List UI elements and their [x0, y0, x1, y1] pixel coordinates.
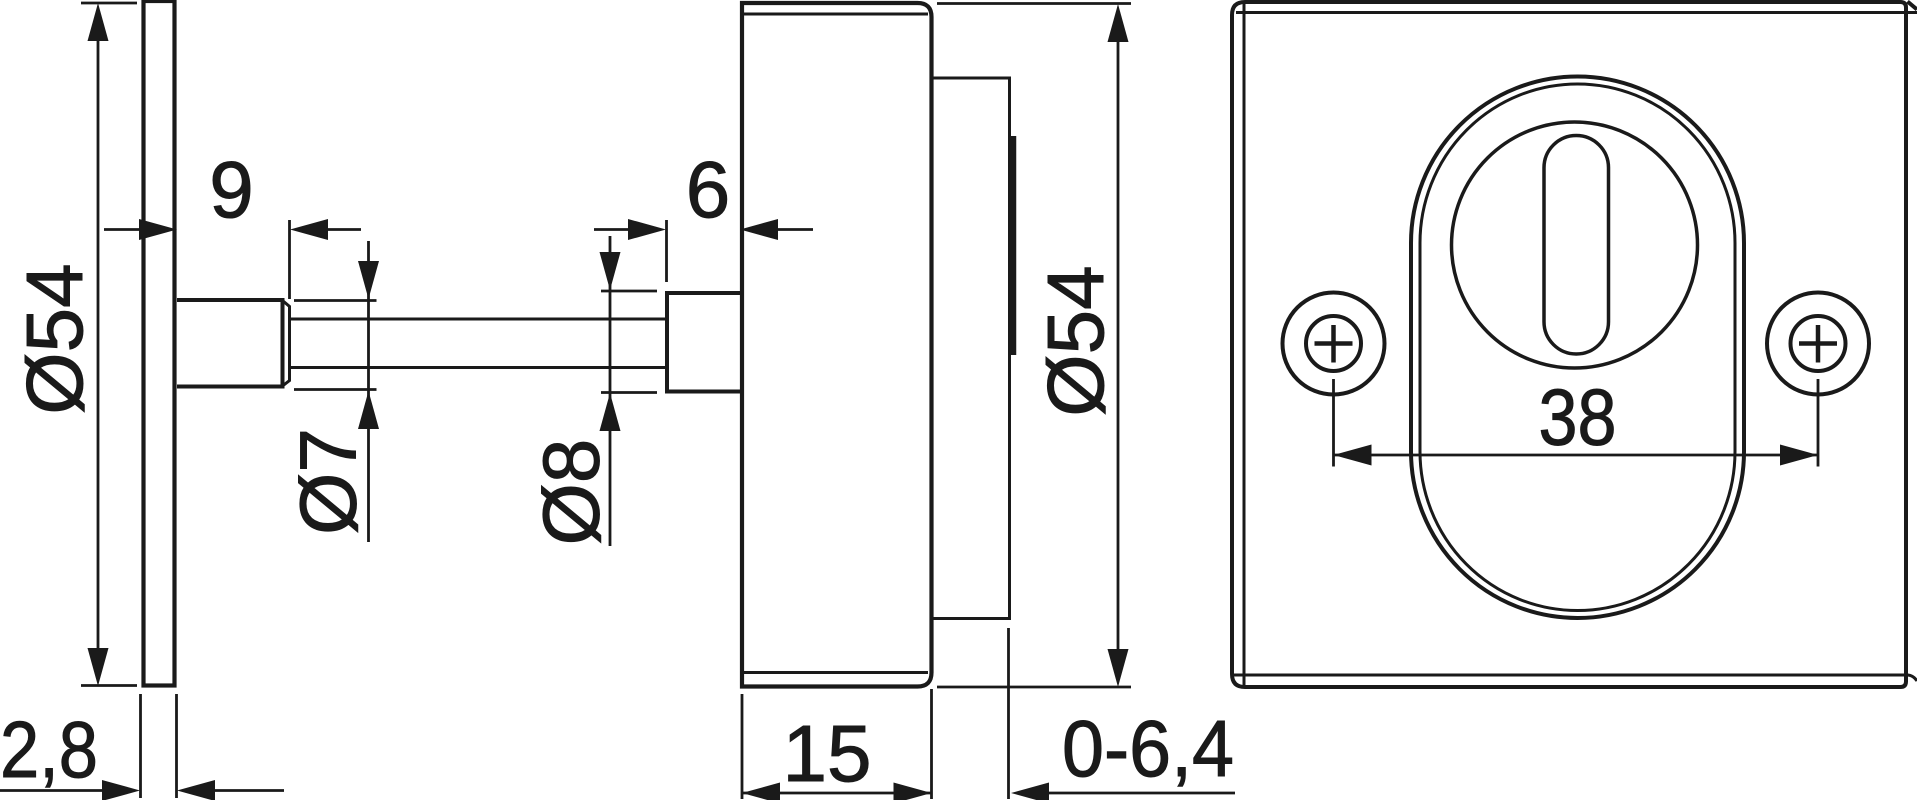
- cap block Ø8 outline: [667, 293, 740, 392]
- dimension 6: left arrow head: [628, 219, 666, 240]
- dimension Ø54 left: dim line: [97, 38, 100, 650]
- svg-text:9: 9: [209, 145, 254, 234]
- svg-text:Ø54: Ø54: [1031, 265, 1120, 416]
- svg-text:Ø8: Ø8: [527, 439, 616, 546]
- svg-text:Ø54: Ø54: [10, 263, 99, 414]
- left screw cross horizontal: [1315, 341, 1353, 346]
- front square bevel line top: [1236, 11, 1917, 14]
- dimension Ø7: lower arrow head: [358, 391, 379, 429]
- cylinder face circle: [1452, 122, 1698, 368]
- dimension 38: left arrow head: [1334, 445, 1372, 466]
- dimension Ø54 left: bottom extension tick: [81, 684, 137, 687]
- dimension 6: right arrow tail: [776, 228, 813, 231]
- dimension Ø54 middle: bottom arrow: [1108, 649, 1129, 687]
- dimension Ø7: upper arrow line: [367, 241, 370, 542]
- dimension 15: right arrow head: [894, 783, 932, 800]
- dimension 15: left arrow head: [742, 783, 780, 800]
- dimension Ø8: lower arrow head: [600, 393, 621, 431]
- cylinder cover oval outer: [1411, 77, 1744, 619]
- dimension 38: right arrow head: [1780, 445, 1818, 466]
- keyway slot: [1544, 136, 1609, 355]
- dimension 9: extension line: [288, 220, 291, 299]
- rosette top bevel line: [744, 13, 928, 16]
- dimension 9: right arrow head: [290, 219, 328, 240]
- right screw inner circle: [1791, 316, 1846, 371]
- dimension Ø54 middle: top arrow: [1108, 4, 1129, 42]
- dimension Ø54 middle: top extension line: [937, 2, 1131, 5]
- dimension Ø54 left: bottom arrow: [88, 648, 109, 686]
- dimension Ø7: top extension tick: [294, 299, 377, 302]
- dimension 6: extension line: [665, 220, 668, 282]
- dimension 38: dim line: [1334, 454, 1819, 457]
- svg-text:Ø7: Ø7: [284, 428, 373, 535]
- spindle shaft bottom line: [290, 366, 667, 369]
- dimension 2,8: right arrow tail: [213, 789, 284, 792]
- dimension 0-6,4: arrow head: [1011, 783, 1049, 800]
- svg-text:6: 6: [686, 145, 731, 234]
- cropped corner line at top right: [1908, 2, 1917, 10]
- svg-text:38: 38: [1539, 373, 1617, 462]
- cylinder protrusion bar: [1011, 136, 1017, 355]
- dimension Ø7: upper arrow head: [358, 261, 379, 299]
- dimension Ø54 left: top arrow: [88, 3, 109, 41]
- dimension 2,8: right extension line: [175, 694, 178, 798]
- left screw inner circle: [1306, 316, 1361, 371]
- dimension 2,8: right arrow head: [177, 780, 215, 800]
- dimension 2,8: left arrow head: [102, 780, 140, 800]
- dimension 15: left extension line: [741, 694, 744, 799]
- dimension Ø8: upper arrow head: [600, 252, 621, 290]
- adapter plate rectangle: [932, 78, 1010, 619]
- dimension 2,8: left extension line: [139, 694, 142, 798]
- svg-text:15: 15: [783, 709, 872, 798]
- right screw outer circle: [1767, 293, 1869, 395]
- dimension 6: left arrow tail: [594, 228, 630, 231]
- dimension 0-6,4: dim line: [1047, 792, 1235, 795]
- dimension Ø8: upper arrow line: [609, 236, 612, 546]
- spindle shaft top line: [290, 318, 667, 321]
- cylinder cover oval inner: [1420, 84, 1735, 611]
- dimension 2,8: left arrow tail: [0, 789, 104, 792]
- plate side profile (2.8mm): [144, 1, 175, 686]
- dimension Ø8: bottom extension tick: [601, 391, 657, 394]
- dimension 15: dim line: [742, 792, 932, 795]
- svg-text:2,8: 2,8: [0, 705, 98, 794]
- dimension 15: right extension line: [930, 689, 933, 799]
- dimension 9: left arrow tail: [104, 228, 142, 231]
- dimension Ø54 left: top extension tick: [81, 2, 137, 5]
- svg-text:0-6,4: 0-6,4: [1062, 704, 1234, 793]
- dimension Ø54 middle: dim line: [1117, 40, 1120, 650]
- front square bevel line bottom: [1234, 675, 1917, 681]
- rosette front square: [1232, 2, 1906, 687]
- dimension 9: right arrow tail: [326, 228, 361, 231]
- dimension 0-6,4: extension line: [1007, 628, 1010, 799]
- left screw cross vertical: [1331, 325, 1336, 363]
- boss chamfer edge: [283, 301, 290, 387]
- rosette side view outline: [742, 3, 932, 687]
- dimension Ø8: top extension tick: [601, 290, 657, 293]
- dimension 9: left arrow head: [139, 219, 177, 240]
- dimension 38: left extension line: [1332, 379, 1335, 467]
- front square bevel line (left+bottom): [1243, 4, 1246, 685]
- right screw cross horizontal: [1799, 341, 1837, 346]
- dimension Ø7: bottom extension tick: [294, 388, 377, 391]
- left screw outer circle: [1283, 293, 1385, 395]
- rosette bottom bevel line: [744, 671, 928, 674]
- right screw cross vertical: [1816, 325, 1821, 363]
- dimension 6: right arrow head: [740, 219, 778, 240]
- dimension 38: right extension line: [1817, 379, 1820, 467]
- boss Ø7 outline: [177, 300, 283, 387]
- dimension Ø54 middle: bottom extension line: [937, 686, 1131, 689]
